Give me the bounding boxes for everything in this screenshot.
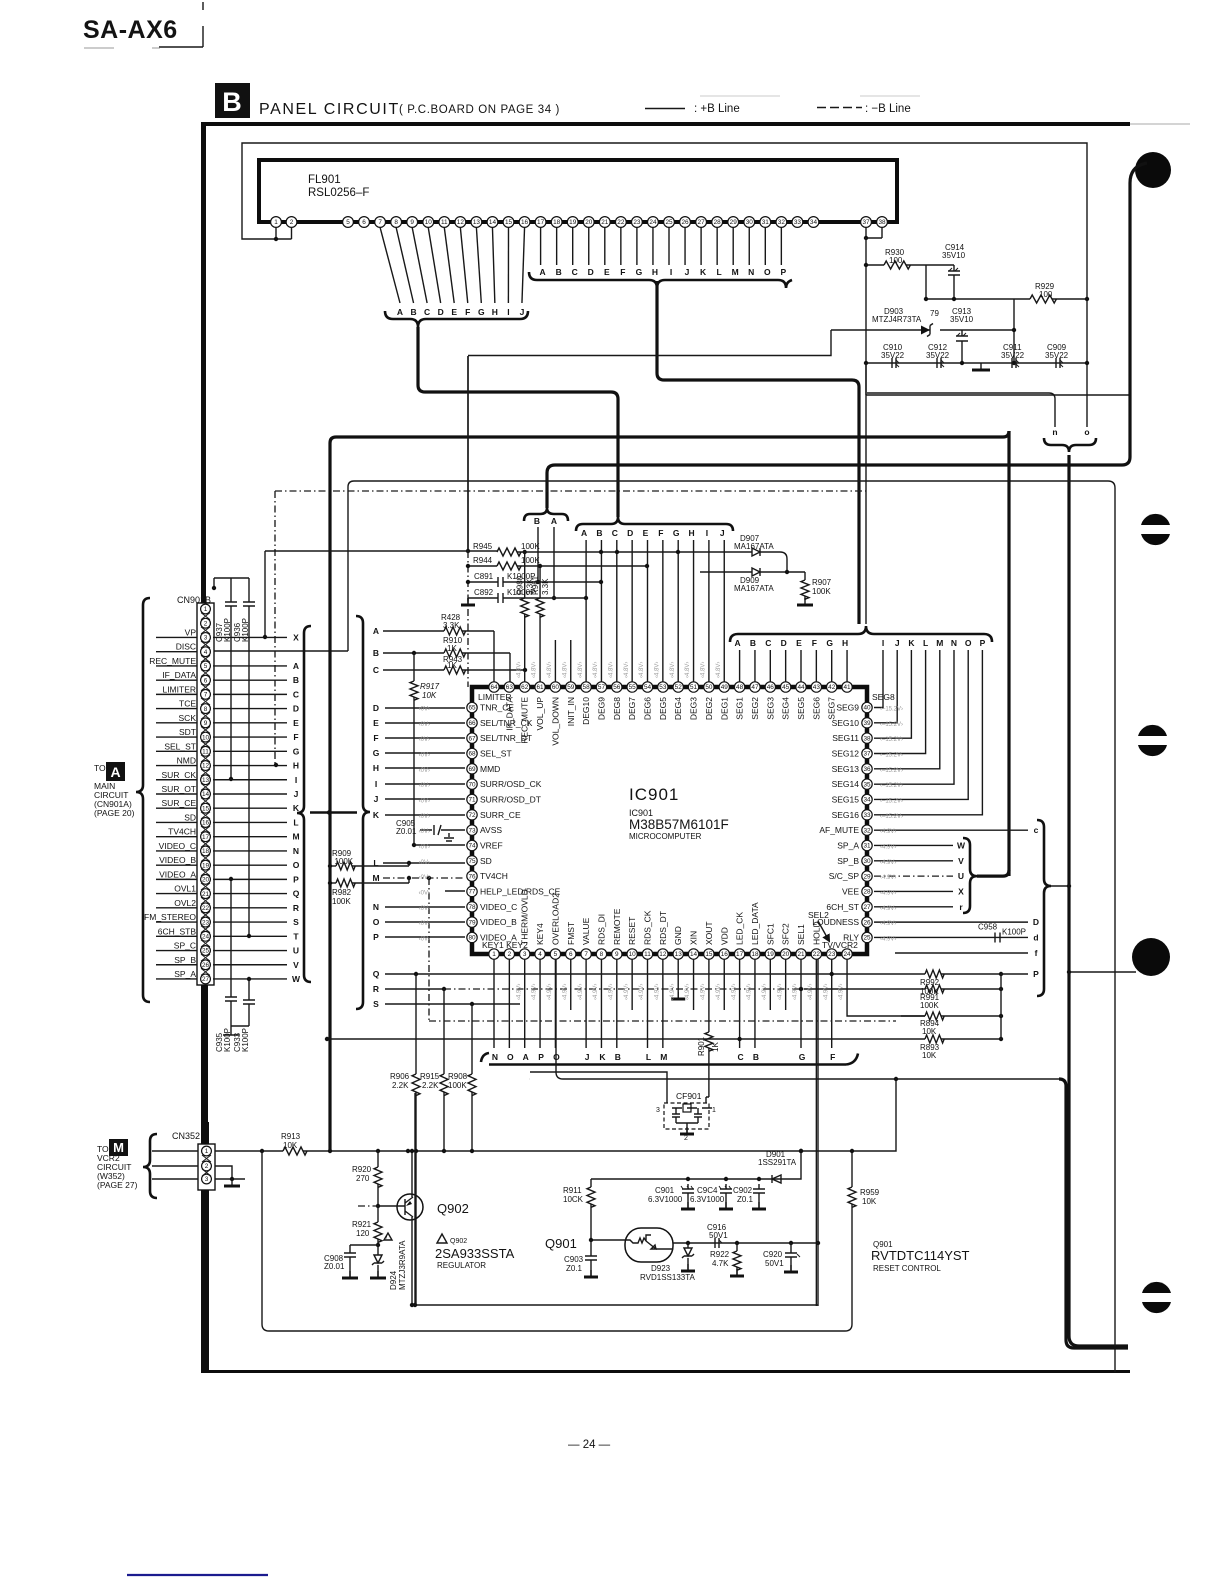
svg-text:2: 2 — [508, 951, 512, 958]
resistor R929 100 — [926, 298, 1030, 300]
svg-text:B: B — [534, 516, 540, 526]
svg-text:KEY4: KEY4 — [535, 923, 545, 945]
svg-text:LED_DATA: LED_DATA — [750, 902, 760, 945]
svg-text:15: 15 — [202, 805, 210, 812]
svg-text:M: M — [936, 638, 943, 648]
svg-text:DEG9: DEG9 — [596, 697, 606, 720]
svg-text:63: 63 — [506, 684, 514, 691]
svg-text:‹4.9V›: ‹4.9V› — [670, 984, 676, 1000]
resistor R907 100K — [804, 572, 806, 580]
legend -B line — [817, 107, 862, 109]
svg-text:J: J — [720, 528, 725, 538]
svg-text:DEG10: DEG10 — [581, 697, 591, 725]
svg-text:G: G — [478, 307, 485, 317]
svg-text:‹0V›: ‹0V› — [419, 890, 430, 896]
svg-text:10: 10 — [425, 219, 433, 226]
svg-text:CN352: CN352 — [172, 1131, 200, 1141]
transistor Q902 — [397, 1194, 423, 1220]
svg-text:A: A — [110, 764, 120, 780]
svg-text:‹4.9V›: ‹4.9V› — [593, 984, 599, 1000]
svg-text:12: 12 — [202, 763, 210, 770]
capacitor C935 C933 K100P bottom — [223, 879, 239, 1035]
svg-text:R908: R908 — [448, 1072, 468, 1081]
svg-text:48: 48 — [736, 684, 744, 691]
svg-text:‹4.9V›: ‹4.9V› — [731, 984, 737, 1000]
svg-text:21: 21 — [601, 219, 609, 226]
box around caps — [866, 363, 1130, 395]
svg-text:32: 32 — [863, 827, 871, 834]
wire d row from RLY with C958 — [874, 936, 1028, 938]
section label B PANEL CIRCUIT — [215, 83, 250, 118]
svg-text:62: 62 — [521, 684, 529, 691]
svg-text:SEG15: SEG15 — [832, 794, 860, 804]
svg-text:VREF: VREF — [480, 840, 503, 850]
svg-text:20: 20 — [782, 951, 790, 958]
registration split circle 2 — [1138, 725, 1167, 736]
svg-text:‹4.8V›: ‹4.8V› — [716, 662, 722, 678]
svg-text:F: F — [465, 307, 470, 317]
svg-text:C: C — [373, 665, 379, 675]
svg-text:‹4.8V›: ‹4.8V› — [547, 662, 553, 678]
svg-text:B: B — [222, 87, 242, 117]
svg-text:‹4.8V›: ‹4.8V› — [639, 662, 645, 678]
svg-text:KEY1 KEY2: KEY1 KEY2 — [482, 940, 528, 950]
svg-text:: +B Line: : +B Line — [694, 103, 740, 115]
svg-text:C891: C891 — [474, 572, 494, 581]
svg-text:o: o — [1084, 427, 1089, 437]
svg-text:1: 1 — [712, 1107, 716, 1114]
svg-text:R982: R982 — [332, 888, 352, 897]
svg-text:L: L — [646, 1052, 651, 1062]
svg-text:A: A — [293, 661, 299, 671]
Q R S vertical drops with R906 R915 R908 — [415, 974, 417, 1074]
svg-text:H: H — [373, 763, 379, 773]
svg-text:‹4.9V›: ‹4.9V› — [547, 984, 553, 1000]
svg-text:VP: VP — [185, 627, 197, 637]
svg-text:P: P — [781, 267, 787, 277]
svg-text:2: 2 — [290, 219, 294, 226]
wire Q901 collector row — [673, 1242, 818, 1244]
wire pin77 row — [445, 890, 465, 892]
svg-text:‹4.9V›: ‹4.9V› — [516, 984, 522, 1000]
svg-text:16: 16 — [721, 951, 729, 958]
svg-text:F: F — [620, 267, 625, 277]
svg-text:D: D — [438, 307, 444, 317]
svg-text:10K: 10K — [422, 691, 437, 700]
svg-text:35V22: 35V22 — [1001, 351, 1025, 360]
svg-text:R911: R911 — [563, 1186, 582, 1195]
svg-text:N: N — [748, 267, 754, 277]
svg-text:‹–15.2V›: ‹–15.2V› — [880, 783, 903, 789]
svg-text:73: 73 — [468, 827, 476, 834]
registration mark dot mid — [1132, 938, 1170, 976]
svg-text:Z0.01: Z0.01 — [324, 1262, 345, 1271]
svg-text:‹–15.2V›: ‹–15.2V› — [880, 752, 903, 758]
svg-text:V: V — [958, 856, 964, 866]
svg-text:22: 22 — [813, 951, 821, 958]
svg-text:I: I — [507, 307, 509, 317]
svg-text:SEL1: SEL1 — [796, 924, 806, 945]
svg-text:DEG3: DEG3 — [689, 697, 699, 720]
svg-text:14: 14 — [690, 951, 698, 958]
svg-text:K1000P: K1000P — [507, 572, 535, 581]
svg-text:R906: R906 — [390, 1072, 410, 1081]
svg-text:‹0V›: ‹0V› — [419, 906, 430, 912]
svg-text:34: 34 — [810, 219, 818, 226]
svg-text:57: 57 — [598, 684, 606, 691]
svg-text:R945: R945 — [473, 542, 493, 551]
svg-text:R922: R922 — [710, 1250, 730, 1259]
svg-text:C: C — [765, 638, 771, 648]
svg-text:35V10: 35V10 — [950, 315, 974, 324]
svg-text:‹0V›: ‹0V› — [419, 814, 430, 820]
svg-text:‹–15.2V›: ‹–15.2V› — [880, 707, 903, 713]
svg-text:D924: D924 — [389, 1270, 398, 1290]
svg-text:66: 66 — [468, 720, 476, 727]
svg-text:O: O — [373, 917, 380, 927]
svg-text:R917: R917 — [420, 682, 440, 691]
svg-text:SEL2: SEL2 — [808, 910, 829, 920]
svg-text:SD: SD — [184, 812, 196, 822]
svg-text:29: 29 — [863, 873, 871, 880]
svg-text:52: 52 — [675, 684, 683, 691]
svg-text:7: 7 — [204, 692, 208, 699]
svg-text:W: W — [957, 840, 966, 850]
svg-text:‹–15.2V›: ‹–15.2V› — [880, 722, 903, 728]
svg-text:9: 9 — [615, 951, 619, 958]
IC901 left pins 65-80 — [467, 702, 477, 712]
svg-text:32: 32 — [778, 219, 786, 226]
svg-text:12: 12 — [457, 219, 465, 226]
svg-text:‹0V›: ‹0V› — [419, 707, 430, 713]
svg-text:SFC2: SFC2 — [781, 923, 791, 945]
svg-text:6: 6 — [362, 219, 366, 226]
svg-text:33: 33 — [794, 219, 802, 226]
svg-text:‹4.9V›: ‹4.9V› — [823, 984, 829, 1000]
wire left inner loop — [262, 1151, 852, 1331]
svg-text:K100P: K100P — [1002, 927, 1026, 936]
svg-text:10: 10 — [629, 951, 637, 958]
svg-text:26: 26 — [863, 919, 871, 926]
brace for CN901B bundle — [297, 626, 311, 982]
svg-text:2SA933SSTA: 2SA933SSTA — [435, 1246, 515, 1261]
svg-text:‹4.9V›: ‹4.9V› — [880, 829, 896, 835]
svg-text:Q902: Q902 — [437, 1201, 469, 1216]
svg-text:‹4.9V›: ‹4.9V› — [880, 875, 896, 881]
svg-text:65: 65 — [468, 705, 476, 712]
svg-text:E: E — [373, 718, 379, 728]
svg-text:SURR_CE: SURR_CE — [480, 810, 521, 820]
svg-text:DEG2: DEG2 — [704, 697, 714, 720]
svg-text:RDS_DI: RDS_DI — [596, 914, 606, 945]
svg-text:64: 64 — [490, 684, 498, 691]
svg-text:7: 7 — [378, 219, 382, 226]
svg-text:6: 6 — [204, 677, 208, 684]
capacitor C908 Z0.01 — [344, 1245, 378, 1277]
svg-text:2: 2 — [205, 1163, 209, 1170]
wire rail y=437 thick (W2) — [330, 431, 1009, 1151]
wire C row R943 — [383, 669, 444, 671]
svg-text:SURR/OSD_CK: SURR/OSD_CK — [480, 779, 542, 789]
svg-text:VIDEO_C: VIDEO_C — [480, 902, 517, 912]
svg-text:‹0V›: ‹0V› — [419, 722, 430, 728]
svg-text:U: U — [293, 946, 299, 956]
wire x=276 to pin12 — [274, 763, 278, 767]
registration split circle 1 — [1141, 514, 1170, 525]
svg-text:‹4.9V›: ‹4.9V› — [880, 906, 896, 912]
svg-text:C: C — [572, 267, 578, 277]
svg-text:R921: R921 — [352, 1220, 372, 1229]
svg-text:‹4.8V›: ‹4.8V› — [670, 662, 676, 678]
svg-text:‹4.9V›: ‹4.9V› — [747, 984, 753, 1000]
pin 22 HOLD long wire — [815, 959, 817, 1306]
brace facing right letters — [356, 616, 370, 1009]
svg-text:K: K — [700, 267, 707, 277]
svg-text:— 24 —: — 24 — — [568, 1439, 611, 1451]
svg-text:XIN: XIN — [689, 931, 699, 945]
resistor R959 10K — [851, 1151, 853, 1187]
IC901 bottom pins 1-24 — [489, 949, 499, 959]
display FL901 RSL0256-F — [259, 160, 897, 222]
svg-text:24: 24 — [649, 219, 657, 226]
wire B row R910 — [383, 652, 444, 654]
svg-text:RVD1SS133TA: RVD1SS133TA — [640, 1273, 696, 1282]
pin 15 XOUT to R901 — [708, 959, 710, 1032]
legend +B line — [645, 108, 685, 110]
svg-text:J: J — [294, 789, 299, 799]
svg-text:A: A — [540, 267, 546, 277]
svg-text:3.3K: 3.3K — [541, 578, 550, 595]
label TO VCR2 M — [109, 1139, 128, 1156]
svg-text:‹4.9V›: ‹4.9V› — [880, 844, 896, 850]
svg-text:RESET CONTROL: RESET CONTROL — [873, 1264, 941, 1273]
svg-text:B: B — [750, 638, 756, 648]
resistor R893 10K — [327, 1038, 925, 1040]
svg-text:RDS_DT: RDS_DT — [658, 911, 668, 945]
svg-text:X: X — [293, 632, 299, 642]
ground — [980, 363, 982, 369]
svg-text:SEG2: SEG2 — [750, 697, 760, 720]
svg-text:J: J — [585, 1052, 590, 1062]
svg-text:SEG4: SEG4 — [781, 697, 791, 720]
svg-text:M: M — [372, 873, 379, 883]
svg-text:2: 2 — [204, 620, 208, 627]
svg-text:B: B — [556, 267, 562, 277]
svg-text:I: I — [706, 528, 708, 538]
bottom letter row — [493, 959, 495, 1048]
svg-text:E: E — [604, 267, 610, 277]
svg-text:1: 1 — [274, 219, 278, 226]
svg-text:N: N — [492, 1052, 498, 1062]
capacitor C920 50V1 — [785, 1243, 797, 1271]
svg-text:K100P: K100P — [241, 1028, 250, 1052]
main thick bus wire from dot — [547, 163, 1147, 508]
svg-text:1: 1 — [204, 606, 208, 613]
svg-text:D: D — [588, 267, 594, 277]
svg-text:46: 46 — [767, 684, 775, 691]
svg-text:100: 100 — [889, 256, 903, 265]
svg-text:13: 13 — [473, 219, 481, 226]
wire A row R428 — [383, 630, 444, 632]
svg-text:11: 11 — [202, 749, 209, 756]
svg-text:TV4CH: TV4CH — [480, 871, 508, 881]
svg-text:K100P: K100P — [223, 618, 232, 642]
svg-text:B: B — [373, 648, 379, 658]
svg-text:B: B — [596, 528, 602, 538]
svg-text:61: 61 — [536, 684, 544, 691]
brace A-P over SEG pins — [730, 626, 992, 642]
svg-text:100K: 100K — [812, 587, 831, 596]
svg-text:MTZJ4R73TA: MTZJ4R73TA — [872, 315, 922, 324]
svg-text:A: A — [523, 1052, 529, 1062]
svg-text:15: 15 — [705, 951, 713, 958]
svg-text:c: c — [1034, 825, 1039, 835]
FL901 pins 1-38 — [271, 217, 282, 228]
svg-text:‹4.9V›: ‹4.9V› — [793, 984, 799, 1000]
svg-text:13: 13 — [202, 777, 210, 784]
svg-text:F: F — [658, 528, 663, 538]
svg-text:G: G — [799, 1052, 806, 1062]
svg-text:B: B — [753, 1052, 759, 1062]
capacitor C903 Z0.1 — [585, 1240, 597, 1276]
svg-text:3.3K: 3.3K — [443, 621, 460, 630]
svg-text:‹–15.2V›: ‹–15.2V› — [880, 737, 903, 743]
svg-text:‹4.9V›: ‹4.9V› — [880, 936, 896, 942]
svg-text:T: T — [293, 931, 299, 941]
svg-text:‹0V›: ‹0V› — [419, 829, 430, 835]
svg-text:10K: 10K — [922, 1051, 937, 1060]
resistor R992 100K — [925, 970, 944, 978]
svg-text:27: 27 — [863, 904, 871, 911]
svg-text:C: C — [612, 528, 618, 538]
svg-text:Z0.01: Z0.01 — [396, 827, 417, 836]
svg-text:38: 38 — [863, 735, 871, 742]
svg-text:VOL_DOWN: VOL_DOWN — [550, 697, 560, 746]
svg-text:J: J — [685, 267, 690, 277]
svg-text:‹0V›: ‹0V› — [419, 936, 430, 942]
svg-text:SA-AX6: SA-AX6 — [83, 16, 178, 44]
svg-text:L: L — [923, 638, 928, 648]
svg-text:OVL1: OVL1 — [174, 884, 196, 894]
svg-text:R: R — [373, 984, 379, 994]
svg-text:REC_MUTE: REC_MUTE — [520, 697, 530, 744]
wire jog from left into D903 row — [468, 330, 831, 356]
svg-text:8: 8 — [600, 951, 604, 958]
svg-text:P: P — [1033, 969, 1039, 979]
svg-text:40: 40 — [863, 705, 871, 712]
svg-text:18: 18 — [202, 848, 210, 855]
capacitor C937 C936 K100P top — [214, 577, 249, 579]
svg-text:5: 5 — [346, 219, 350, 226]
svg-text:41: 41 — [843, 684, 851, 691]
svg-text:18: 18 — [751, 951, 759, 958]
svg-text:AF_MUTE: AF_MUTE — [819, 825, 859, 835]
wire x=818 right edge of block — [817, 959, 819, 1306]
svg-text:SEG5: SEG5 — [796, 697, 806, 720]
svg-text:72: 72 — [468, 812, 476, 819]
svg-text:FL901: FL901 — [308, 174, 341, 186]
svg-text:11: 11 — [644, 951, 651, 958]
svg-text:S: S — [373, 999, 379, 1009]
svg-text:4.7K: 4.7K — [712, 1259, 729, 1268]
svg-text:SP_A: SP_A — [174, 969, 196, 979]
svg-text:56: 56 — [613, 684, 621, 691]
svg-text:76: 76 — [468, 873, 476, 880]
svg-text:‹4.8V›: ‹4.8V› — [701, 662, 707, 678]
svg-text:‹4.8V›: ‹4.8V› — [685, 662, 691, 678]
svg-text:1: 1 — [205, 1148, 209, 1155]
svg-text:5: 5 — [204, 663, 208, 670]
ground under pin 13 — [677, 959, 679, 998]
capacitor C892 K1000P — [468, 593, 586, 603]
svg-text:VIDEO_C: VIDEO_C — [159, 841, 196, 851]
stubs bottom pins — [570, 959, 572, 1010]
svg-text:68: 68 — [468, 751, 476, 758]
svg-text:SP_A: SP_A — [837, 840, 859, 850]
op-amp/microcomputer IC901 body — [472, 687, 867, 954]
svg-text:‹4.9V›: ‹4.9V› — [839, 984, 845, 1000]
svg-text:R907: R907 — [812, 578, 832, 587]
svg-text:37: 37 — [863, 751, 871, 758]
svg-text:Z0.1: Z0.1 — [566, 1264, 583, 1273]
svg-text:55: 55 — [629, 684, 637, 691]
svg-text:MICROCOMPUTER: MICROCOMPUTER — [629, 832, 702, 841]
svg-text:A: A — [735, 638, 741, 648]
svg-text:H: H — [293, 761, 299, 771]
svg-text:23: 23 — [202, 919, 210, 926]
wire to R929 row — [925, 265, 927, 299]
svg-text:D: D — [1033, 917, 1039, 927]
svg-text:‹4.8V›: ‹4.8V› — [532, 662, 538, 678]
svg-text:M: M — [660, 1052, 667, 1062]
svg-text:G: G — [826, 638, 833, 648]
svg-text:D: D — [781, 638, 787, 648]
regulator block bottom wire — [414, 1093, 416, 1305]
svg-text:R920: R920 — [352, 1165, 372, 1174]
svg-text:‹4.9V›: ‹4.9V› — [762, 984, 768, 1000]
svg-text:100K: 100K — [521, 542, 540, 551]
svg-text:‹4.9V›: ‹4.9V› — [880, 921, 896, 927]
svg-text:54: 54 — [644, 684, 652, 691]
svg-text:SP_B: SP_B — [174, 955, 196, 965]
svg-text:35V22: 35V22 — [1045, 351, 1069, 360]
svg-text:( P.C.BOARD ON PAGE 34 ): ( P.C.BOARD ON PAGE 34 ) — [399, 104, 560, 116]
svg-text:INIT_IN: INIT_IN — [566, 697, 576, 726]
svg-text:1K: 1K — [447, 644, 457, 653]
svg-text:19: 19 — [767, 951, 775, 958]
svg-text:9: 9 — [204, 720, 208, 727]
svg-text:18: 18 — [553, 219, 561, 226]
svg-text:4: 4 — [204, 649, 208, 656]
svg-text:17: 17 — [537, 219, 545, 226]
svg-text:P: P — [538, 1052, 544, 1062]
svg-text:7: 7 — [584, 951, 588, 958]
svg-text:‹4.9V›: ‹4.9V› — [777, 984, 783, 1000]
svg-text:C9C4: C9C4 — [697, 1186, 718, 1195]
svg-text:(PAGE 27): (PAGE 27) — [97, 1180, 138, 1190]
wires Q R S rows — [385, 974, 925, 1004]
svg-text:A: A — [373, 626, 379, 636]
svg-text:71: 71 — [468, 797, 476, 804]
svg-text:: −B Line: : −B Line — [865, 103, 911, 115]
svg-text:R913: R913 — [281, 1132, 301, 1141]
diode D909 MA167ATA — [752, 568, 760, 576]
svg-text:AVSS: AVSS — [480, 825, 502, 835]
svg-text:MTZJ3R9ATA: MTZJ3R9ATA — [398, 1240, 407, 1290]
svg-text:X: X — [958, 886, 964, 896]
wires D-K rows to IC — [385, 707, 465, 709]
svg-text:8: 8 — [394, 219, 398, 226]
